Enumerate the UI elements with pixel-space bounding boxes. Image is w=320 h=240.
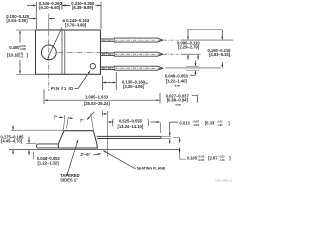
svg-text:0.525–0.555: 0.525–0.555: [119, 119, 143, 124]
dim 0.525-0.555: [107, 111, 109, 157]
svg-text:7°: 7°: [80, 118, 84, 123]
svg-text:7°: 7°: [54, 114, 58, 119]
svg-text:1.005–1.033: 1.005–1.033: [85, 95, 109, 100]
seating plane leader: [103, 151, 134, 169]
svg-text:−0.38: −0.38: [219, 160, 225, 162]
lead 1 centerline: [102, 39, 179, 41]
svg-text:[13.34–14.10]: [13.34–14.10]: [118, 124, 144, 129]
svg-text:[2.54–3.05]: [2.54–3.05]: [7, 18, 29, 23]
svg-text:]: ]: [27, 52, 29, 57]
svg-text:+0.25: +0.25: [219, 157, 225, 159]
svg-text:PIN #1 ID: PIN #1 ID: [51, 86, 74, 91]
dim 0.330-0.350: [100, 2, 102, 29]
svg-text:[4.83–5.33]: [4.83–5.33]: [209, 52, 231, 57]
svg-text:[25.53–26.24]: [25.53–26.24]: [84, 101, 110, 106]
tapered sides leader: [67, 140, 78, 176]
svg-text:+0.010: +0.010: [198, 157, 206, 159]
dim 0.400 left: [16, 29, 35, 31]
svg-text:−0.08: −0.08: [217, 125, 223, 127]
svg-text:[6.10–6.60]: [6.10–6.60]: [39, 5, 61, 10]
side view seating plane line: [9, 148, 180, 150]
svg-text:−0.13: −0.13: [18, 57, 24, 59]
dim 0.190-0.210 right: [221, 30, 223, 34]
svg-text:+0.015: +0.015: [19, 46, 27, 48]
svg-text:0.013: 0.013: [179, 121, 190, 126]
svg-text:+0.38: +0.38: [18, 54, 24, 56]
tab/body double line: [61, 30, 63, 74]
svg-text:[4.45–4.70]: [4.45–4.70]: [1, 139, 23, 144]
svg-text:TYP: TYP: [144, 83, 149, 85]
svg-text:SEATING PLANE: SEATING PLANE: [137, 167, 166, 171]
svg-text:T03B DRW L1: T03B DRW L1: [215, 180, 233, 183]
lead 3 centerline: [102, 67, 164, 69]
side view tab: [37, 144, 59, 148]
horizontal centerline: [57, 51, 108, 53]
hole dia leader: [48, 28, 63, 59]
side view body: [58, 131, 97, 148]
lead 2: [101, 52, 163, 56]
svg-text:[3.30–4.06]: [3.30–4.06]: [123, 84, 145, 89]
svg-text:TYP: TYP: [174, 84, 179, 88]
svg-text:0.105: 0.105: [187, 156, 198, 161]
svg-text:[3.78–3.89]: [3.78–3.89]: [65, 22, 87, 27]
lead 3: [101, 66, 163, 70]
pin1 leader: [75, 71, 91, 89]
side view lead: [97, 136, 162, 138]
svg-text:[0.33: [0.33: [205, 121, 215, 126]
dim 0.175-0.185: [12, 126, 14, 130]
svg-text:+0.18: +0.18: [217, 122, 223, 124]
svg-text:−0.015: −0.015: [198, 160, 206, 162]
body top ext: [11, 129, 64, 131]
tab top ext: [26, 143, 36, 145]
svg-text:3°–6°: 3°–6°: [80, 152, 91, 157]
7deg right ext + leader: [91, 114, 94, 131]
dim 0.048-0.052: [28, 137, 30, 144]
svg-text:[2.67: [2.67: [208, 156, 218, 161]
svg-text:+0.007: +0.007: [192, 122, 200, 124]
svg-text:[1.22–1.40]: [1.22–1.40]: [166, 78, 188, 83]
lead edge ext: [162, 136, 171, 138]
dimension texts: [1, 1, 233, 183]
dim 1.005-1.033: [43, 90, 45, 105]
pin 1 ID circle: [90, 63, 95, 68]
7deg left arrows: [59, 116, 63, 118]
svg-text:−0.003: −0.003: [192, 125, 200, 127]
leader 0.027-0.037: [192, 95, 198, 103]
lead 1: [101, 38, 163, 42]
svg-text:[1.22–1.32]: [1.22–1.32]: [38, 160, 60, 165]
lead 2 centerline: [102, 53, 179, 55]
dim 0.240-0.260: [35, 2, 37, 29]
dim 0.130-0.160: [101, 76, 103, 90]
svg-text:]: ]: [228, 121, 230, 126]
front view body outline: [36, 30, 101, 74]
dim 0.105: [173, 136, 180, 138]
svg-text:−0.005: −0.005: [19, 49, 27, 51]
svg-text:]: ]: [229, 156, 231, 161]
svg-text:TYP: TYP: [175, 103, 180, 107]
svg-text:[0.69–0.94]: [0.69–0.94]: [167, 98, 189, 103]
svg-text:SIDES 1°: SIDES 1°: [60, 178, 78, 183]
dim 0.013 bracket: [170, 122, 178, 131]
svg-text:[8.38–8.89]: [8.38–8.89]: [72, 5, 94, 10]
dim 0.048-0.053 lead width: [194, 61, 196, 66]
svg-text:[2.29–2.79]: [2.29–2.79]: [178, 44, 200, 49]
3-6 deg arrow: [93, 154, 101, 155]
dim 0.100-0.120: [29, 18, 36, 20]
7deg left ext lines: [63, 115, 65, 130]
mounting hole: [41, 45, 56, 60]
hole vertical centerline: [48, 14, 50, 92]
dim 0.090-0.110 right: [187, 29, 222, 31]
